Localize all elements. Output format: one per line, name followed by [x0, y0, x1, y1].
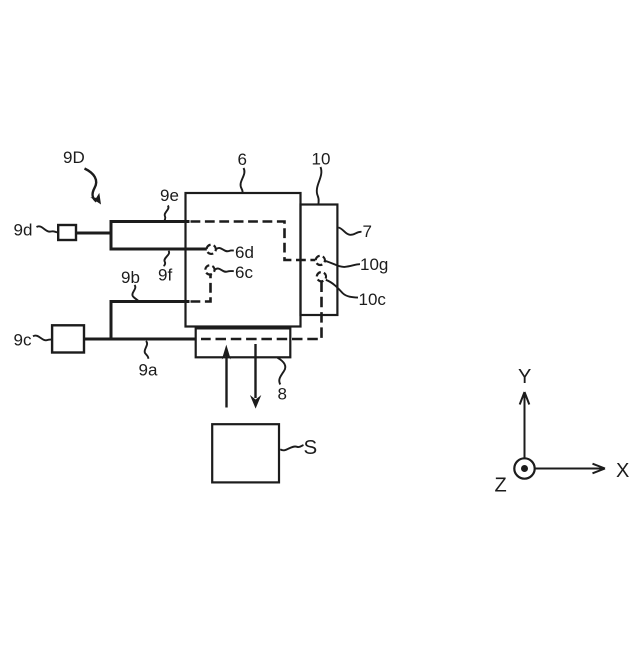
leader squiggle 9e — [165, 206, 169, 221]
axis origin circle Z — [514, 458, 534, 478]
svg-text:S: S — [304, 436, 318, 459]
box 9c terminal — [52, 325, 84, 352]
box 10 (right unit) — [301, 205, 338, 316]
svg-text:9c: 9c — [14, 330, 32, 349]
svg-text:Y: Y — [518, 366, 531, 388]
leader squiggle 9D arrow — [85, 169, 97, 202]
wire fork vertical 9e/9f — [110, 220, 113, 250]
arrow down from 8 to S — [254, 344, 256, 398]
svg-text:Z: Z — [495, 475, 507, 497]
axis X line — [534, 468, 603, 470]
wire from 9d box — [76, 232, 111, 235]
svg-text:9e: 9e — [160, 186, 179, 205]
dashed path from 9e to 10g — [191, 222, 316, 261]
leader squiggle 6c — [215, 269, 234, 272]
box 8 (bottom unit) — [196, 328, 291, 357]
leader squiggle 9d — [37, 226, 58, 232]
axis Y line — [524, 394, 526, 459]
svg-text:10c: 10c — [359, 290, 387, 309]
dashed path from 9b to 6c — [191, 275, 211, 302]
leader squiggle 10c — [326, 280, 358, 298]
wire 9a — [84, 338, 196, 341]
leader squiggle 9b — [132, 285, 138, 301]
arrow up from S to 8 — [225, 352, 227, 408]
port circle 10g — [314, 254, 327, 267]
svg-text:9D: 9D — [63, 148, 85, 167]
leader squiggle 9c — [33, 336, 52, 341]
wire 9f — [110, 248, 207, 251]
svg-text:6c: 6c — [235, 263, 253, 282]
svg-text:10g: 10g — [360, 255, 388, 274]
wire 9e — [110, 220, 190, 223]
leader squiggle 10 — [317, 167, 322, 204]
box 6 (main unit) — [186, 193, 301, 327]
dashed path from 10c down through 8 — [201, 282, 322, 340]
leader squiggle S — [280, 445, 303, 450]
svg-text:6: 6 — [238, 150, 247, 169]
svg-text:8: 8 — [278, 384, 287, 403]
leader squiggle 9a — [145, 341, 149, 359]
leader squiggle 8 — [278, 358, 286, 385]
leader squiggle 6 — [241, 168, 245, 193]
leader squiggle 9f — [164, 251, 169, 266]
svg-text:9b: 9b — [121, 268, 140, 287]
svg-text:9a: 9a — [139, 361, 158, 380]
box 9d terminal — [58, 225, 76, 240]
wire fork vertical 9b/9a — [110, 300, 113, 340]
svg-text:9d: 9d — [14, 221, 33, 240]
svg-text:6d: 6d — [235, 243, 254, 262]
svg-text:X: X — [616, 460, 629, 482]
svg-text:10: 10 — [312, 150, 331, 169]
wire 9b — [110, 300, 190, 303]
port circle 6c — [203, 263, 216, 276]
port circle 6d — [205, 243, 218, 256]
leader squiggle 6d — [216, 248, 234, 251]
box S (sensor) — [212, 424, 279, 482]
leader squiggle 7 — [339, 228, 362, 235]
leader squiggle 10g — [325, 261, 360, 267]
svg-text:9f: 9f — [158, 265, 172, 284]
svg-text:7: 7 — [363, 222, 372, 241]
port circle 10c — [315, 270, 328, 283]
